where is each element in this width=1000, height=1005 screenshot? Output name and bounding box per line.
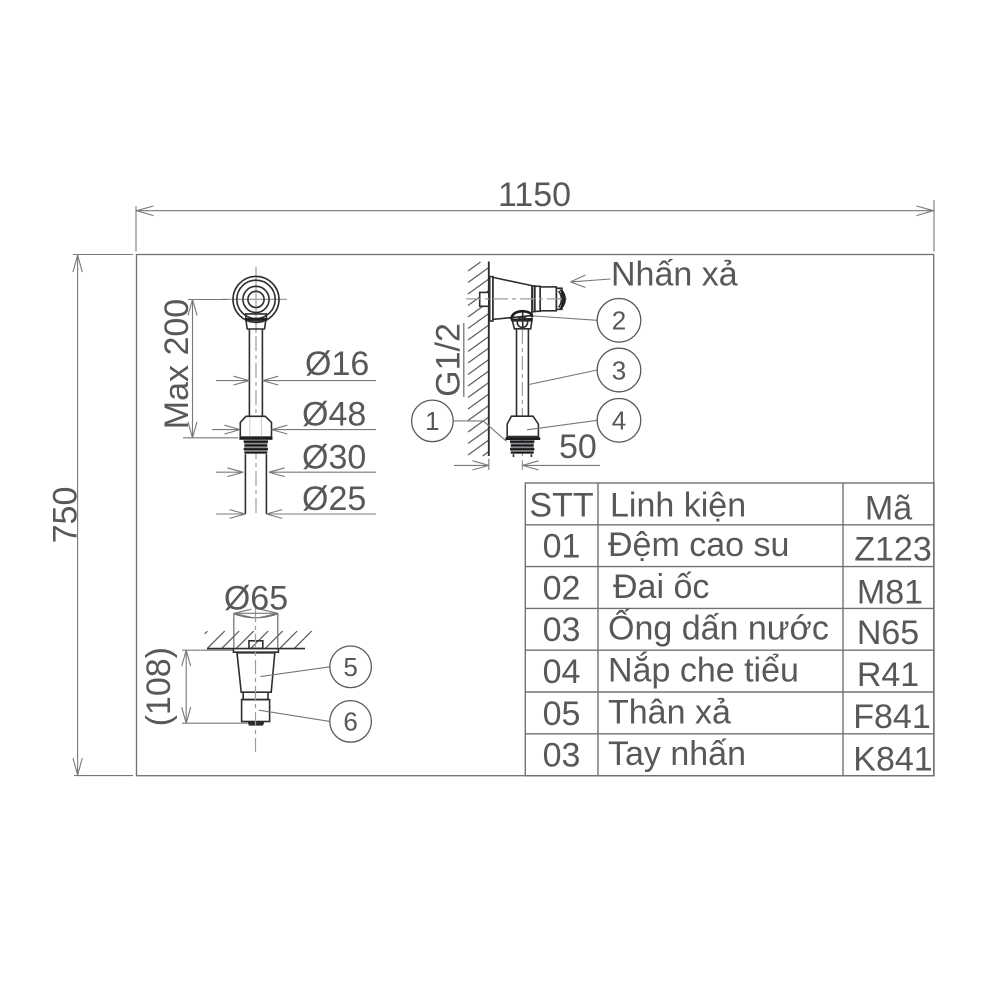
balloon 6 (259, 701, 371, 743)
svg-text:Ống dấn nước: Ống dấn nước (608, 609, 829, 648)
svg-text:1: 1 (425, 406, 439, 436)
nut Ø48 (240, 416, 271, 437)
balloon 4 (527, 399, 641, 443)
dimension Ø65 (224, 579, 288, 617)
cylinder projection above floor (234, 613, 278, 648)
push button circles (233, 276, 279, 322)
svg-text:03: 03 (543, 737, 581, 775)
drawing border (137, 255, 934, 776)
flange plate (233, 649, 278, 652)
dimension (108) (140, 647, 248, 726)
G1/2 stub behind wall (480, 292, 489, 306)
svg-text:G1/2: G1/2 (430, 323, 468, 397)
dimension Ø48 (212, 396, 376, 435)
side gasket (505, 437, 540, 440)
svg-text:Đai ốc: Đai ốc (613, 568, 709, 606)
wall line (488, 262, 490, 457)
dimension 50 (454, 428, 600, 470)
PARTS TABLE (525, 483, 934, 776)
svg-text:Nhấn xả: Nhấn xả (611, 255, 738, 293)
svg-text:Mã: Mã (865, 490, 912, 528)
down pipe side (517, 329, 529, 417)
svg-text:M81: M81 (857, 573, 923, 611)
svg-text:Đệm cao su: Đệm cao su (608, 526, 789, 564)
balloon 5 (260, 646, 371, 688)
svg-text:03: 03 (543, 611, 581, 649)
svg-text:Z123: Z123 (854, 531, 932, 569)
svg-text:(108): (108) (140, 647, 178, 726)
svg-text:4: 4 (612, 406, 626, 436)
balloon 2 (534, 299, 641, 343)
side nut (507, 416, 538, 436)
dimension Ø16 (216, 345, 376, 385)
label G1/2 (430, 323, 468, 397)
svg-text:2: 2 (612, 306, 626, 336)
bottom view center line (255, 608, 257, 756)
tapered body (237, 653, 275, 692)
outlet pipe Ø25 (245, 454, 266, 514)
svg-text:Ø65: Ø65 (224, 579, 288, 617)
wall flange (490, 277, 493, 321)
step section (242, 692, 270, 721)
center square on floor (249, 641, 263, 649)
svg-text:F841: F841 (853, 698, 931, 736)
push button side (533, 286, 566, 312)
svg-text:Max 200: Max 200 (158, 299, 196, 429)
inlet pipe Ø16 (249, 329, 262, 418)
side center line vertical (521, 330, 523, 470)
svg-text:05: 05 (543, 695, 581, 733)
svg-text:Thân xả: Thân xả (608, 693, 731, 731)
svg-text:50: 50 (559, 428, 597, 466)
collar nut (512, 312, 532, 330)
svg-text:04: 04 (543, 653, 581, 691)
bottom tip (248, 722, 263, 725)
svg-text:01: 01 (543, 528, 581, 566)
dimension Max 200 (158, 299, 238, 438)
dimension Ø25 (216, 480, 376, 518)
dimension 750 left (47, 255, 134, 776)
dimension Ø30 (216, 438, 376, 476)
svg-text:1150: 1150 (498, 176, 571, 214)
svg-text:Nắp che tiểu: Nắp che tiểu (608, 652, 799, 690)
svg-text:6: 6 (343, 707, 357, 737)
svg-text:5: 5 (343, 652, 357, 682)
valve body (493, 277, 532, 319)
side outlet stub (514, 454, 532, 457)
dome cap (511, 311, 533, 320)
svg-text:Ø16: Ø16 (305, 345, 369, 383)
svg-text:750: 750 (47, 487, 85, 544)
floor hatching (205, 631, 312, 648)
svg-text:Linh kiện: Linh kiện (610, 487, 746, 525)
neck below button (245, 314, 267, 329)
svg-text:02: 02 (543, 569, 581, 607)
side thread (510, 440, 534, 453)
svg-text:Ø48: Ø48 (302, 396, 366, 434)
svg-text:K841: K841 (853, 741, 932, 779)
label Nhấn xả (571, 255, 738, 293)
center line vertical (255, 267, 257, 516)
svg-text:Tay nhấn: Tay nhấn (608, 735, 746, 773)
balloon 1 (412, 400, 507, 442)
svg-text:N65: N65 (857, 614, 919, 652)
floor line (207, 648, 305, 650)
side center line horizontal (466, 298, 567, 300)
svg-text:STT: STT (529, 487, 593, 525)
center line horizontal crosshair (222, 298, 287, 300)
svg-text:Ø25: Ø25 (302, 480, 366, 518)
dimension 1150 top (136, 176, 934, 252)
thread Ø30 (244, 440, 268, 453)
gasket band (239, 437, 272, 440)
svg-text:3: 3 (612, 355, 626, 385)
wall hatching (468, 262, 489, 456)
balloon 3 (529, 348, 641, 392)
svg-text:R41: R41 (857, 656, 919, 694)
svg-text:Ø30: Ø30 (302, 438, 366, 476)
